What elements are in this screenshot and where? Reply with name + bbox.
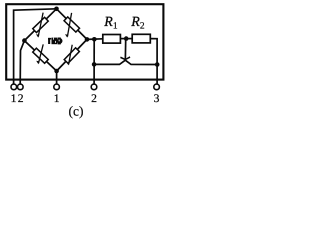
wire bridge right node to R1 — [87, 38, 103, 41]
terminal 2 left — [18, 84, 24, 90]
terminal 3 — [154, 84, 160, 90]
bridge arm top-right — [57, 9, 88, 40]
bridge arm top-left — [24, 9, 56, 41]
wire R2 right end down to terminal 3 — [150, 39, 157, 84]
pin number 2 (left pair) — [18, 92, 24, 105]
svg-text:(c): (c) — [69, 104, 84, 119]
node R1-R2 junction — [124, 36, 129, 41]
svg-text:3: 3 — [154, 92, 160, 105]
node bottom vertex — [54, 69, 59, 74]
node top vertex — [54, 7, 59, 12]
pin number 1 (middle) — [54, 92, 60, 105]
pin number 2 (middle) — [91, 92, 97, 105]
lower wire with slider chevron — [94, 60, 157, 64]
pin number 3 — [154, 92, 160, 105]
label R1 — [103, 15, 118, 32]
terminal 1 left — [11, 84, 17, 90]
svg-text:1: 1 — [54, 92, 60, 105]
wire R1 to R2 — [120, 38, 132, 40]
svg-text:2: 2 — [18, 92, 24, 105]
svg-text:R: R — [103, 15, 113, 30]
node right vertex — [85, 37, 90, 42]
caption (c) — [69, 104, 84, 119]
terminal 2 mid — [91, 84, 97, 90]
svg-text:1: 1 — [113, 21, 118, 31]
wire bridge left node to terminal2-left — [20, 41, 24, 84]
enclosure box — [6, 4, 163, 79]
bridge centre label — [48, 38, 62, 45]
label R2 — [130, 15, 145, 32]
svg-text:1: 1 — [11, 92, 17, 105]
resistor R2 — [132, 34, 150, 43]
svg-text:2: 2 — [91, 92, 97, 105]
svg-text:R: R — [130, 15, 140, 30]
node lower-left junction — [92, 62, 97, 67]
bridge arm bottom-right — [57, 39, 87, 71]
wiper arrow from R1-R2 junction — [120, 40, 130, 61]
node left vertex — [22, 38, 27, 43]
node R1 input junction — [92, 37, 97, 42]
pin number 1 (left pair) — [11, 92, 17, 105]
bridge arm bottom-left — [24, 41, 56, 71]
terminal 1 mid — [54, 84, 60, 90]
resistor R1 — [103, 35, 121, 44]
wire terminal1-left to bridge top node — [14, 9, 57, 84]
wire bridge bottom node to terminal1-mid — [56, 71, 58, 84]
wire mid-node down to terminal2-mid — [93, 39, 95, 84]
node lower-right junction — [155, 62, 160, 67]
svg-text:2: 2 — [140, 21, 145, 31]
